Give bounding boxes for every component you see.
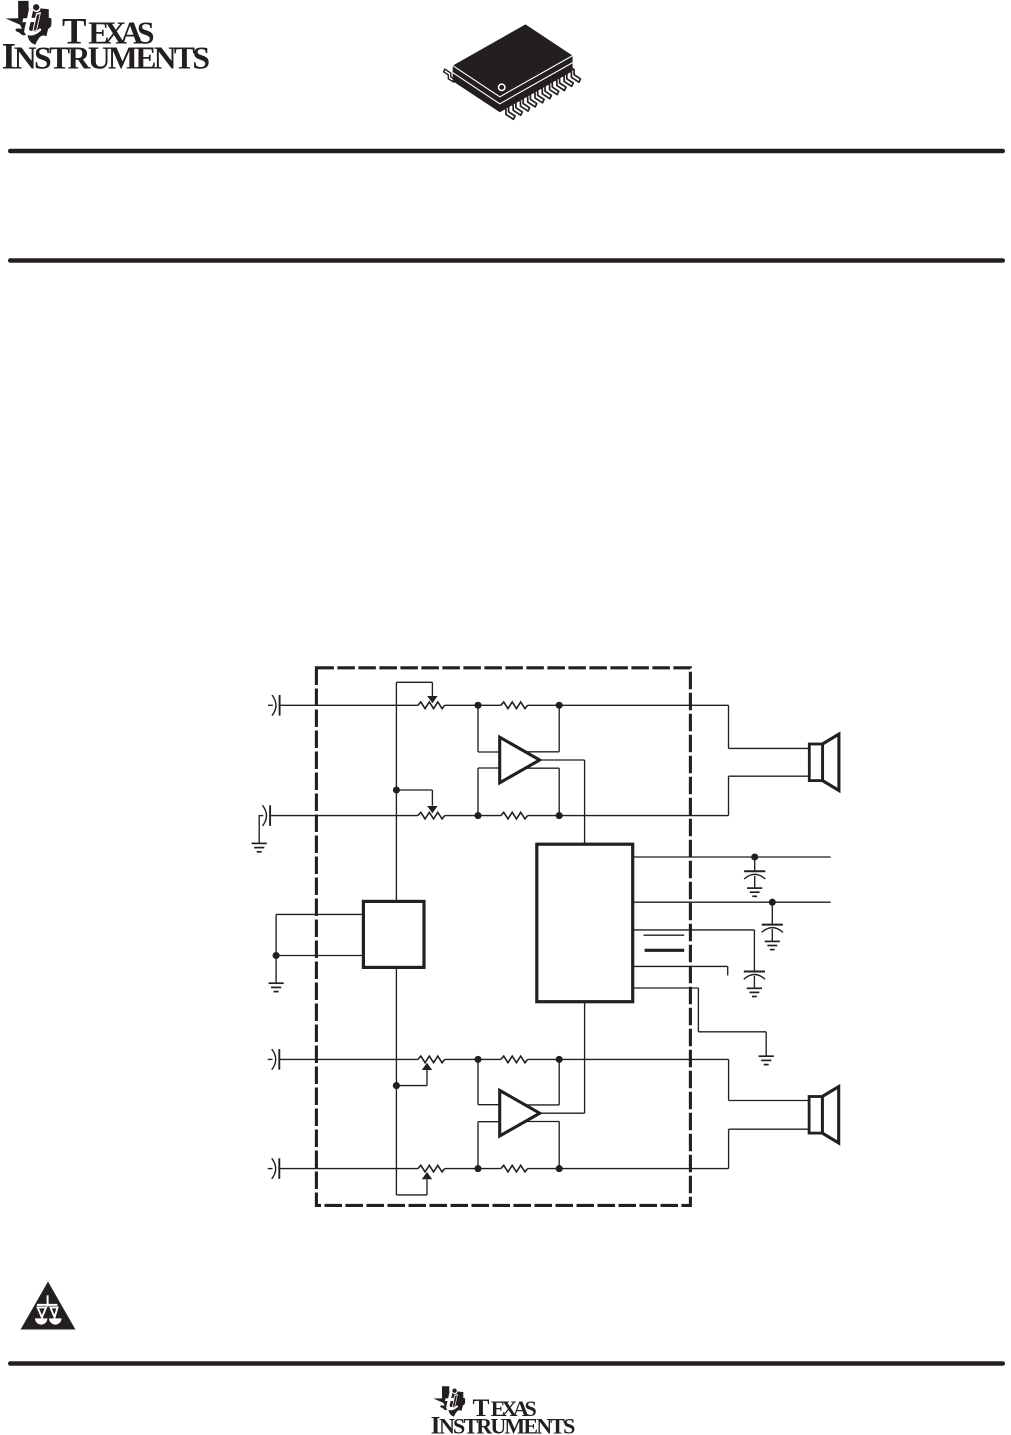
capacitor CI3 (third input cap) [268,1049,280,1070]
op-amp A1 feedback wires [477,705,479,752]
bottom TI logo (centered) [431,1386,576,1435]
wiper wire P3 [393,1082,400,1089]
i dot [33,4,39,10]
legal scales warning triangle (bottom left) [21,1282,76,1330]
capacitor C3 [744,972,765,997]
svg-text:NSTRUMENTS: NSTRUMENTS [14,41,210,76]
letter t (white) [22,9,35,36]
op-amp A1 output wire [540,759,585,761]
rule 1 (top horizontal bar) [8,149,1005,154]
ground (IC) [759,1056,774,1064]
node dots channel 2 [474,1056,481,1063]
resistor RF4 [501,1165,528,1172]
op-amp A1 [500,737,540,783]
wiper wire P4 [395,967,397,1195]
ground (control block) [269,983,284,991]
ground (input 2) [252,843,267,851]
chip pin-1 dot [499,84,505,90]
bottom rule [8,1361,1005,1366]
Texas state outline [6,1,52,45]
op-amp A2 output wire [540,1112,585,1114]
wiper wire P1 [396,681,432,683]
wire IN4 [279,1168,418,1170]
chip near-row pins [501,66,580,120]
chip package isometric drawing [444,24,581,119]
capacitor CI4 (fourth input cap) [268,1158,280,1179]
TI logo (top left): Texas state emblem [2,1,210,77]
dashed application-circuit boundary box [316,668,690,1206]
capacitor CI1 (top input coupling cap) [268,695,280,716]
GND pin wire [633,987,699,989]
potentiometer P4 [418,1165,445,1172]
node dots channel 1 [474,702,481,709]
control block left wires [276,913,363,915]
chip far-side pin (left corner) [444,69,456,82]
resistor RF1 (feedback) [501,702,528,709]
BYPASS pin wire [633,901,831,903]
potentiometer P1 [418,702,445,709]
chip body [453,24,573,112]
op-amp A2 [500,1090,540,1136]
wire IN1 [280,704,418,706]
node dots channel 1 lower [474,812,481,819]
wire IN2 [270,815,418,817]
resistor RF3 [501,1056,528,1063]
resistor RF2 [501,812,528,819]
pin 3 wire to C3 [633,929,755,931]
rule 2 (second horizontal bar) [8,258,1005,263]
speaker SPK2 [809,1087,839,1143]
SE/BTL pin overline mark [644,934,685,936]
letter i stem (black) [34,14,40,31]
swash under ti [25,30,40,34]
SHUTDOWN pin overline mark [645,949,685,952]
speaker SPK1 [809,734,839,790]
wire IN3 [279,1058,418,1060]
control block (volume/depop) [363,901,424,967]
capacitor C2 (bypass) [762,925,783,950]
letter i body (white) [32,12,41,32]
node dots channel 2 lower [474,1165,481,1172]
VDD pin wire [633,856,831,858]
i dot halo [33,4,41,12]
wiper wire P2 [393,786,400,793]
pin 4 stub wire [633,965,728,967]
capacitor C1 (supply bypass) [744,871,765,896]
potentiometer P3 [418,1056,445,1063]
potentiometer P2 [418,812,445,819]
wire IN2 to ground [258,816,260,844]
volume control line (vertical) [395,682,397,901]
op-amp A2 feedback wires [477,1059,479,1104]
capacitor CI2 (second input cap) [259,805,271,826]
main amplifier IC block [537,844,633,1002]
